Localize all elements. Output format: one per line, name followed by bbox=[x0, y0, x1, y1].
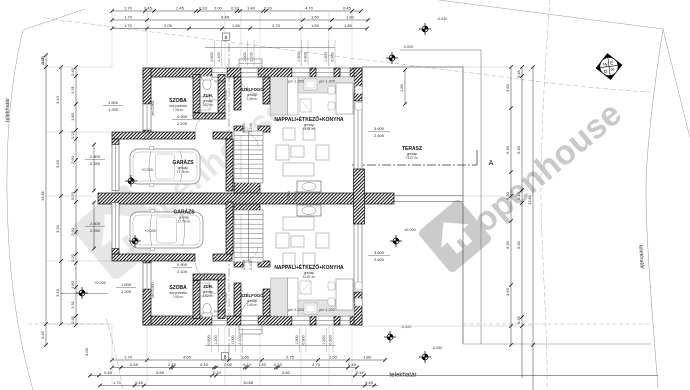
svg-text:2.500: 2.500 bbox=[90, 154, 101, 159]
svg-text:1.70: 1.70 bbox=[124, 355, 133, 360]
svg-text:1.65: 1.65 bbox=[241, 355, 250, 360]
svg-text:2.90: 2.90 bbox=[70, 155, 75, 164]
svg-text:1.31: 1.31 bbox=[70, 85, 75, 94]
svg-text:0.20: 0.20 bbox=[70, 130, 75, 139]
svg-text:0.10: 0.10 bbox=[231, 6, 240, 11]
svg-text:pm 0,900: pm 0,900 bbox=[151, 101, 155, 116]
svg-text:1.80: 1.80 bbox=[70, 280, 75, 289]
svg-text:2,48 m²: 2,48 m² bbox=[247, 97, 258, 101]
svg-text:1.500: 1.500 bbox=[322, 335, 326, 345]
svg-text:5.55: 5.55 bbox=[156, 370, 165, 375]
svg-text:-0,030: -0,030 bbox=[432, 346, 443, 350]
svg-text:m 0,900: m 0,900 bbox=[214, 310, 226, 314]
svg-text:13.81: 13.81 bbox=[40, 190, 45, 201]
svg-text:2.100: 2.100 bbox=[238, 335, 242, 345]
svg-text:0.900: 0.900 bbox=[242, 123, 246, 133]
svg-text:41,81 m²: 41,81 m² bbox=[303, 127, 316, 131]
svg-text:2.100: 2.100 bbox=[250, 52, 254, 62]
svg-text:1.200: 1.200 bbox=[217, 52, 221, 62]
svg-text:0.45: 0.45 bbox=[144, 6, 153, 11]
svg-text:0.20: 0.20 bbox=[70, 253, 75, 262]
svg-text:0.600: 0.600 bbox=[210, 52, 214, 62]
svg-text:SZÉLFOGÓ: SZÉLFOGÓ bbox=[240, 87, 264, 92]
svg-text:3.00: 3.00 bbox=[84, 347, 89, 356]
svg-text:2.250: 2.250 bbox=[90, 228, 101, 233]
svg-text:pm 0,900: pm 0,900 bbox=[151, 283, 155, 298]
svg-text:ZUH.: ZUH. bbox=[203, 284, 213, 289]
svg-text:1.31: 1.31 bbox=[70, 300, 75, 309]
svg-text:1.80: 1.80 bbox=[399, 83, 404, 92]
svg-text:6.30: 6.30 bbox=[505, 145, 510, 154]
svg-text:0.10: 0.10 bbox=[516, 191, 521, 200]
svg-text:1.500: 1.500 bbox=[295, 335, 299, 345]
svg-text:-0,030: -0,030 bbox=[437, 17, 448, 21]
svg-text:2.75: 2.75 bbox=[272, 23, 281, 28]
svg-text:0.750: 0.750 bbox=[224, 90, 228, 100]
svg-text:3,92 m²: 3,92 m² bbox=[203, 294, 214, 298]
svg-text:1.200: 1.200 bbox=[214, 335, 218, 345]
svg-text:2.00: 2.00 bbox=[214, 6, 223, 11]
svg-text:2.100: 2.100 bbox=[294, 191, 298, 201]
svg-text:+0,000: +0,000 bbox=[94, 281, 106, 285]
svg-text:1.200: 1.200 bbox=[121, 289, 132, 294]
svg-text:2.500: 2.500 bbox=[90, 221, 101, 226]
svg-text:7,08 m²: 7,08 m² bbox=[173, 108, 184, 112]
svg-text:0.45: 0.45 bbox=[343, 6, 352, 11]
svg-text:1.80: 1.80 bbox=[70, 112, 75, 121]
svg-text:0.900: 0.900 bbox=[177, 262, 188, 267]
svg-text:pm 1,200: pm 1,200 bbox=[319, 80, 335, 84]
svg-text:2.75: 2.75 bbox=[286, 355, 295, 360]
svg-text:2.90: 2.90 bbox=[70, 227, 75, 236]
svg-text:2.00: 2.00 bbox=[224, 362, 233, 367]
svg-text:0.10: 0.10 bbox=[200, 362, 209, 367]
svg-text:2.100: 2.100 bbox=[177, 269, 188, 274]
svg-text:3.20: 3.20 bbox=[55, 224, 60, 233]
svg-text:0.45: 0.45 bbox=[104, 370, 113, 375]
svg-text:É: É bbox=[610, 59, 613, 65]
svg-text:0.10: 0.10 bbox=[264, 6, 273, 11]
svg-text:3,92 m²: 3,92 m² bbox=[203, 103, 214, 107]
svg-text:2.250: 2.250 bbox=[90, 161, 101, 166]
svg-text:0.20: 0.20 bbox=[70, 191, 75, 200]
svg-text:SZÉLFOGÓ: SZÉLFOGÓ bbox=[240, 293, 264, 298]
svg-text:2.45: 2.45 bbox=[176, 6, 185, 11]
svg-text:3.10: 3.10 bbox=[55, 95, 60, 104]
svg-text:+0,000: +0,000 bbox=[144, 229, 156, 233]
svg-text:1.50: 1.50 bbox=[311, 15, 320, 20]
svg-text:0.900: 0.900 bbox=[302, 335, 306, 345]
svg-text:0.20: 0.20 bbox=[213, 370, 222, 375]
svg-text:GARÁZS: GARÁZS bbox=[172, 159, 194, 166]
svg-text:pm 1,200: pm 1,200 bbox=[319, 308, 335, 312]
svg-text:6.60: 6.60 bbox=[505, 191, 510, 200]
svg-text:1.70: 1.70 bbox=[124, 15, 133, 20]
svg-text:1.80: 1.80 bbox=[363, 355, 372, 360]
svg-text:1.500: 1.500 bbox=[297, 52, 301, 62]
svg-text:6.30: 6.30 bbox=[516, 145, 521, 154]
svg-text:2,48 m²: 2,48 m² bbox=[247, 303, 258, 307]
svg-text:73,07 m²: 73,07 m² bbox=[406, 156, 419, 160]
svg-text:7,08 m²: 7,08 m² bbox=[173, 295, 184, 299]
svg-text:1.70: 1.70 bbox=[113, 380, 122, 385]
svg-text:2.100: 2.100 bbox=[249, 123, 253, 133]
svg-text:A: A bbox=[489, 160, 494, 167]
svg-text:0.45: 0.45 bbox=[348, 362, 357, 367]
svg-text:3.600: 3.600 bbox=[374, 250, 385, 255]
svg-text:3.20: 3.20 bbox=[55, 159, 60, 168]
svg-text:m 0,900: m 0,900 bbox=[214, 80, 226, 84]
svg-text:3.60: 3.60 bbox=[505, 83, 510, 92]
svg-text:1.80: 1.80 bbox=[344, 23, 353, 28]
svg-text:2.400: 2.400 bbox=[374, 133, 385, 138]
svg-text:0.45: 0.45 bbox=[135, 380, 144, 385]
svg-text:pm 1,200: pm 1,200 bbox=[288, 308, 304, 312]
svg-text:2.05: 2.05 bbox=[164, 23, 173, 28]
svg-text:4.70: 4.70 bbox=[312, 362, 321, 367]
svg-text:ZUH.: ZUH. bbox=[203, 93, 213, 98]
svg-text:0.45: 0.45 bbox=[516, 69, 521, 78]
svg-text:2.400: 2.400 bbox=[374, 257, 385, 262]
svg-text:2.45: 2.45 bbox=[168, 362, 177, 367]
svg-text:41,81 m²: 41,81 m² bbox=[303, 275, 316, 279]
svg-text:±0,000: ±0,000 bbox=[404, 228, 416, 232]
svg-text:-0,020: -0,020 bbox=[403, 45, 414, 49]
svg-text:telekhatár: telekhatár bbox=[389, 372, 416, 379]
svg-text:NAPPALI+ÉTKEZŐ+KONYHA: NAPPALI+ÉTKEZŐ+KONYHA bbox=[274, 115, 344, 123]
svg-text:pm 1,200: pm 1,200 bbox=[288, 80, 304, 84]
svg-text:NAPPALI+ÉTKEZŐ+KONYHA: NAPPALI+ÉTKEZŐ+KONYHA bbox=[274, 263, 344, 271]
svg-text:3.600: 3.600 bbox=[374, 126, 385, 131]
svg-text:0.10: 0.10 bbox=[199, 6, 208, 11]
svg-text:1.80: 1.80 bbox=[346, 15, 355, 20]
svg-text:13.81: 13.81 bbox=[527, 194, 532, 205]
svg-text:telekhatár: telekhatár bbox=[5, 98, 11, 122]
svg-text:0.45: 0.45 bbox=[516, 315, 521, 324]
svg-text:0.960: 0.960 bbox=[331, 52, 335, 62]
svg-text:0.600: 0.600 bbox=[207, 335, 211, 345]
svg-text:0.900: 0.900 bbox=[242, 260, 246, 270]
svg-text:1.40: 1.40 bbox=[258, 362, 267, 367]
svg-text:0.10: 0.10 bbox=[243, 362, 252, 367]
svg-text:+0,000: +0,000 bbox=[141, 168, 153, 172]
svg-text:8.45: 8.45 bbox=[221, 15, 230, 20]
svg-text:2.100: 2.100 bbox=[249, 260, 253, 270]
svg-text:3.60: 3.60 bbox=[505, 287, 510, 296]
svg-text:1.500: 1.500 bbox=[121, 282, 132, 287]
svg-text:3.00: 3.00 bbox=[40, 55, 45, 64]
svg-text:0.900: 0.900 bbox=[287, 191, 291, 201]
svg-text:3.10: 3.10 bbox=[55, 288, 60, 297]
svg-text:17,78 m²: 17,78 m² bbox=[178, 220, 191, 224]
svg-text:1.000: 1.000 bbox=[231, 335, 235, 345]
svg-text:1.65: 1.65 bbox=[232, 23, 241, 28]
svg-text:0.10: 0.10 bbox=[274, 362, 283, 367]
svg-text:1.500: 1.500 bbox=[108, 100, 119, 105]
svg-text:Ny: Ny bbox=[603, 63, 608, 67]
svg-text:0.45: 0.45 bbox=[40, 330, 45, 339]
svg-text:1.50: 1.50 bbox=[329, 355, 338, 360]
svg-text:1.000: 1.000 bbox=[243, 52, 247, 62]
svg-text:1.200: 1.200 bbox=[108, 107, 119, 112]
svg-text:-0,020: -0,020 bbox=[401, 325, 412, 329]
svg-text:0.45: 0.45 bbox=[70, 315, 75, 324]
svg-text:6.30: 6.30 bbox=[516, 240, 521, 249]
svg-text:0.900: 0.900 bbox=[177, 114, 188, 119]
svg-text:6.80: 6.80 bbox=[282, 370, 291, 375]
svg-text:4.05: 4.05 bbox=[183, 355, 192, 360]
svg-text:2.100: 2.100 bbox=[177, 121, 188, 126]
svg-text:1.70: 1.70 bbox=[124, 6, 133, 11]
svg-text:4.70: 4.70 bbox=[305, 6, 314, 11]
svg-text:0.900: 0.900 bbox=[304, 52, 308, 62]
svg-text:0.45: 0.45 bbox=[365, 380, 374, 385]
svg-text:1.500: 1.500 bbox=[324, 52, 328, 62]
svg-text:10.85: 10.85 bbox=[243, 380, 254, 385]
svg-text:1.50: 1.50 bbox=[311, 23, 320, 28]
svg-text:GARÁZS: GARÁZS bbox=[173, 209, 195, 216]
svg-text:6.30: 6.30 bbox=[505, 240, 510, 249]
svg-text:1.40: 1.40 bbox=[247, 6, 256, 11]
svg-text:0.45: 0.45 bbox=[356, 370, 365, 375]
svg-text:0.750: 0.750 bbox=[224, 293, 228, 303]
svg-text:0.45: 0.45 bbox=[70, 67, 75, 76]
svg-text:0.45: 0.45 bbox=[130, 362, 139, 367]
svg-text:1.70: 1.70 bbox=[124, 23, 133, 28]
svg-text:17,78 m²: 17,78 m² bbox=[177, 170, 190, 174]
